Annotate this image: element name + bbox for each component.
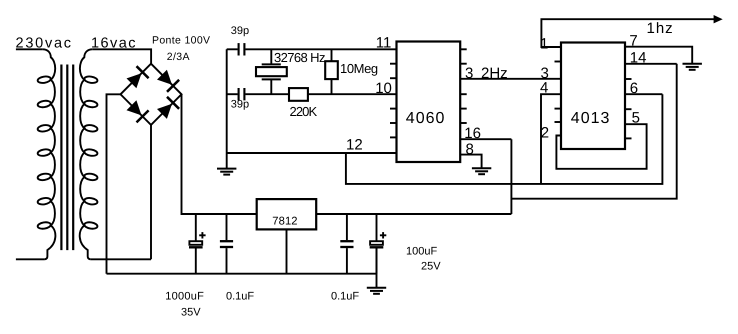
- wire +12V branch to 4013 pin14: [511, 64, 676, 199]
- capacitor C2 0.1uF: [220, 214, 233, 274]
- svg-text:4060: 4060: [406, 110, 446, 127]
- svg-text:16: 16: [464, 125, 481, 142]
- wire +12V vertical riser: [510, 139, 512, 214]
- 4013 left pin stubs: [555, 62, 562, 123]
- wire 4013 pin4 to ground rail: [541, 94, 561, 184]
- svg-text:39p: 39p: [231, 25, 249, 37]
- capacitor C1 1000uF 35V: [189, 214, 206, 274]
- transformer core: [61, 65, 73, 251]
- IC U2 4013: [561, 43, 625, 150]
- svg-text:230vac: 230vac: [16, 36, 73, 52]
- svg-text:1hz: 1hz: [647, 20, 674, 37]
- capacitor C3 0.1uF: [340, 214, 353, 274]
- resistor R1 10Meg: [325, 49, 338, 94]
- bridge rectifier Ponte 100V 2/3A: [121, 64, 182, 125]
- svg-text:0.1uF: 0.1uF: [331, 290, 359, 302]
- wire bridge minus to bottom rail: [107, 94, 121, 273]
- wire secondary bottom to bridge AC2: [91, 258, 151, 260]
- svg-text:2: 2: [541, 125, 549, 142]
- 4013 right pin stubs: [625, 79, 632, 138]
- wire 4060 pin16 to +12V: [460, 138, 511, 140]
- svg-text:7812: 7812: [272, 215, 297, 227]
- resistor R2 220K: [289, 88, 308, 101]
- svg-text:2Hz: 2Hz: [481, 65, 508, 82]
- svg-text:10Meg: 10Meg: [340, 61, 378, 76]
- svg-text:6: 6: [630, 80, 638, 97]
- regulator U3 7812: [257, 199, 317, 229]
- wire reset ground rail: [346, 94, 663, 184]
- wire primary bottom: [16, 258, 45, 260]
- svg-text:39p: 39p: [231, 99, 249, 111]
- svg-text:Ponte 100V: Ponte 100V: [152, 34, 210, 46]
- diode D1 (left-top): [127, 66, 149, 88]
- svg-text:2/3A: 2/3A: [167, 51, 190, 63]
- wire regulator output rail 12V: [316, 213, 511, 215]
- wire 4013 pin14: [625, 63, 677, 65]
- wire oscillator ground bus (left vertical): [226, 49, 228, 168]
- diode D2 (top-right): [157, 70, 179, 92]
- wire 7812 ground pin: [286, 229, 288, 273]
- wire 4013 pin1 Q to 1hz output: [541, 19, 714, 47]
- svg-text:1: 1: [540, 36, 548, 53]
- capacitor C6 39p (bottom): [239, 88, 245, 100]
- svg-text:4013: 4013: [571, 110, 611, 127]
- wire 4013 pin6: [625, 93, 662, 95]
- transformer secondary winding 16vac: [80, 49, 98, 259]
- transformer primary winding 230vac: [37, 49, 55, 259]
- IC U1 4060: [397, 42, 461, 163]
- svg-text:0.1uF: 0.1uF: [226, 290, 254, 302]
- svg-text:12: 12: [346, 137, 363, 154]
- svg-text:3: 3: [465, 65, 473, 82]
- ground symbol (oscillator): [217, 169, 236, 175]
- wire pin10 rail: [227, 93, 397, 95]
- wire bridge plus to regulator input: [182, 94, 257, 214]
- svg-text:100uF: 100uF: [406, 245, 437, 257]
- capacitor C4 100uF 25V: [370, 214, 387, 274]
- capacitor C5 39p (top): [239, 43, 245, 55]
- wire 4060 pin8 to ground: [460, 155, 481, 168]
- arrow 1hz output: [714, 15, 723, 23]
- wire C4 to ground: [376, 247, 378, 287]
- svg-text:25V: 25V: [421, 261, 441, 273]
- svg-text:7: 7: [629, 32, 637, 49]
- svg-text:4: 4: [540, 79, 548, 96]
- svg-text:14: 14: [630, 49, 647, 66]
- wire 4013 pin7 to ground: [625, 47, 692, 64]
- svg-text:220K: 220K: [290, 104, 318, 119]
- wire 4060 pin3 2Hz to 4013 pin3: [460, 78, 561, 80]
- diode D3 (left-bottom): [127, 100, 149, 122]
- 4060 left pin stubs: [390, 64, 397, 138]
- wire bridge AC2 down: [150, 125, 152, 259]
- ground symbol (main rail): [367, 288, 386, 294]
- 4060 right pin stubs: [460, 49, 467, 123]
- svg-text:5: 5: [632, 110, 640, 127]
- wire pin12 rail: [227, 152, 397, 154]
- svg-text:1000uF: 1000uF: [165, 290, 204, 302]
- svg-text:35V: 35V: [181, 307, 201, 319]
- svg-text:8: 8: [466, 141, 474, 158]
- wire secondary top to bridge AC1: [92, 49, 151, 63]
- svg-text:32768 Hz: 32768 Hz: [274, 50, 325, 65]
- crystal X1 32768 Hz: [256, 49, 287, 94]
- svg-text:10: 10: [375, 80, 392, 97]
- wire ground bottom rail: [107, 273, 377, 275]
- wire 4013 pin2 Qbar to pin5 D loop: [556, 124, 646, 169]
- ground symbol (4013 pin7): [683, 64, 702, 70]
- ground symbol (4060 pin8): [472, 168, 491, 174]
- wire pin11 rail: [227, 48, 397, 50]
- diode D4 (bottom-right): [157, 97, 179, 119]
- wire 230vac input: [16, 48, 43, 50]
- svg-text:11: 11: [376, 35, 392, 52]
